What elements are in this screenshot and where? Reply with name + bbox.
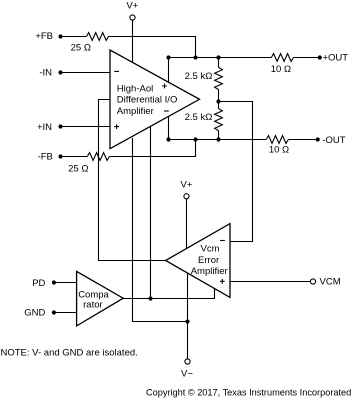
power terminal V+ (mid)	[184, 194, 189, 199]
wire comparator output to Vcm amp bottom edge	[123, 288, 214, 298]
svg-text:GND: GND	[24, 308, 45, 319]
resistor 10 Ohm (+OUT)	[271, 54, 293, 62]
svg-text:2.5 kΩ: 2.5 kΩ	[185, 71, 213, 82]
svg-text:NOTE: V- and GND are isolated.: NOTE: V- and GND are isolated.	[1, 347, 138, 358]
wire V+ to amplifier top edge	[132, 20, 134, 62]
svg-text:Differential I/O: Differential I/O	[117, 95, 178, 106]
wire +FB resistor to +OUT rail	[109, 37, 196, 58]
svg-text:25 Ω: 25 Ω	[71, 42, 91, 53]
wire GND to comparator	[54, 312, 77, 314]
resistor 25 Ohm (+FB)	[86, 33, 108, 41]
junction 2.5k / +OUT rail	[216, 55, 220, 59]
power terminal V-	[185, 359, 190, 364]
junction +FB / +OUT rail	[193, 55, 197, 59]
minus mark - output	[164, 110, 169, 112]
minus mark Vcm amp - input	[220, 240, 225, 242]
wire 10 Ohm to +OUT terminal	[293, 57, 319, 59]
terminal dot -IN	[58, 70, 62, 74]
svg-text:V+: V+	[126, 1, 138, 12]
wire -OUT rail	[169, 139, 267, 141]
plus mark +IN input	[114, 124, 119, 129]
terminal dot PD	[52, 280, 56, 284]
op-amp U2 Vcm Error Amplifier	[166, 224, 230, 298]
svg-text:High-Aol: High-Aol	[117, 83, 153, 94]
svg-text:Error: Error	[198, 255, 219, 266]
wire between 2.5k resistors	[218, 90, 220, 109]
svg-text:-IN: -IN	[39, 67, 52, 78]
terminal circle VCM	[310, 279, 315, 284]
minus mark -IN input	[114, 70, 119, 72]
wire PD to comparator	[54, 282, 77, 284]
svg-text:10 Ω: 10 Ω	[269, 145, 289, 156]
wire amplifier - output down to -OUT rail	[168, 117, 170, 140]
resistor 2.5 kOhm (bottom)	[215, 109, 223, 131]
svg-text:V−: V−	[181, 369, 193, 380]
junction 2.5k / -OUT rail	[216, 137, 220, 141]
svg-text:10 Ω: 10 Ω	[271, 64, 291, 75]
terminal dot -FB	[58, 154, 62, 158]
plus mark + output	[162, 84, 167, 89]
svg-text:PD: PD	[32, 278, 45, 289]
resistor 2.5 kOhm (top)	[215, 67, 223, 89]
wire 2.5k chain to -OUT rail	[218, 131, 220, 140]
comparator U3	[77, 271, 124, 326]
wire amplifier + output up to +OUT rail	[168, 58, 170, 83]
wire +FB input to resistor	[61, 36, 87, 38]
wire 2.5k midpoint tap to Vcm amp - input	[219, 102, 253, 242]
wire comparator output up to amplifier	[150, 126, 152, 298]
svg-text:+IN: +IN	[37, 122, 52, 133]
svg-text:-FB: -FB	[38, 151, 53, 162]
power terminal V+ (top)	[130, 15, 135, 20]
terminal dot +FB	[58, 34, 62, 38]
wire -FB resistor to -OUT rail	[109, 140, 195, 157]
wire +OUT rail	[169, 57, 272, 59]
svg-text:rator: rator	[83, 299, 103, 310]
svg-text:25 Ω: 25 Ω	[68, 164, 88, 175]
wire +OUT rail down to 2.5k chain	[218, 58, 220, 68]
wire +IN to amplifier	[61, 126, 111, 128]
wire -FB input to resistor	[61, 156, 88, 158]
wire Vcm amp V- to V- terminal	[187, 273, 189, 359]
resistor 25 Ohm (-FB)	[87, 153, 109, 161]
wire amplifier V- down to bottom join	[133, 138, 188, 322]
terminal dot GND	[52, 310, 56, 314]
svg-text:2.5 kΩ: 2.5 kΩ	[185, 112, 213, 123]
wire V+ mid to Vcm amp top edge	[186, 199, 188, 248]
svg-text:Vcm: Vcm	[201, 244, 220, 255]
terminal dot +OUT	[318, 55, 322, 59]
svg-text:-OUT: -OUT	[322, 135, 345, 146]
wire -IN to amplifier	[61, 72, 111, 74]
junction -FB / -OUT rail	[193, 137, 197, 141]
junction V- join	[185, 319, 189, 323]
svg-text:+FB: +FB	[35, 31, 53, 42]
op-amp U1 High-Aol Differential I/O Amplifier	[110, 50, 200, 149]
terminal dot -OUT	[316, 137, 320, 141]
svg-text:Amplifier: Amplifier	[191, 266, 228, 277]
junction -output / -OUT rail	[166, 137, 170, 141]
junction 2.5k midpoint	[216, 99, 220, 103]
wire 10 Ohm to -OUT terminal	[288, 139, 317, 141]
junction +output / +OUT rail	[166, 55, 170, 59]
plus mark Vcm amp + input	[220, 279, 225, 284]
svg-text:Amplifier: Amplifier	[117, 106, 154, 117]
wire Vcm amp + input to VCM terminal	[230, 281, 310, 283]
terminal dot +IN	[58, 124, 62, 128]
svg-text:V+: V+	[181, 180, 193, 191]
svg-text:Copyright © 2017, Texas Instru: Copyright © 2017, Texas Instruments Inco…	[146, 388, 351, 398]
wire Vcm error amp output to amplifier mid input	[99, 100, 166, 261]
svg-text:+OUT: +OUT	[323, 53, 349, 64]
junction comparator output	[148, 296, 152, 300]
svg-text:VCM: VCM	[320, 277, 341, 288]
resistor 10 Ohm (-OUT)	[266, 136, 288, 144]
